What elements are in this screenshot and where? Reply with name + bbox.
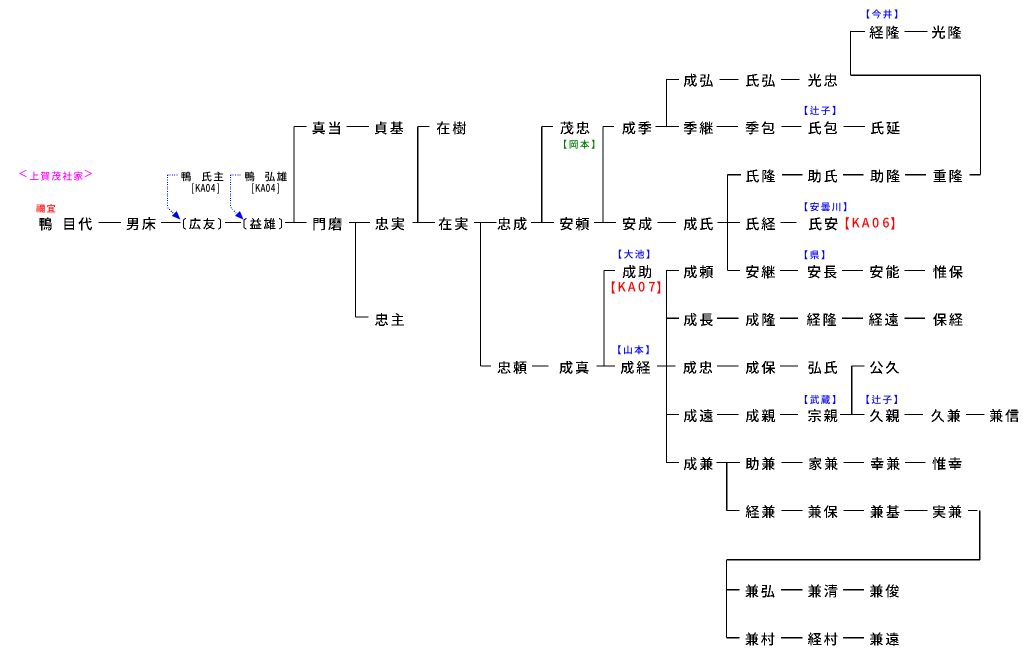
text 幸兼 <box>871 457 900 470</box>
wire dash <box>781 589 803 591</box>
wire dash <box>966 413 985 415</box>
wire stub <box>418 126 430 128</box>
text 【KA06】 <box>846 217 894 229</box>
wire route up <box>850 31 852 75</box>
text 季継 <box>684 121 713 134</box>
wire dash <box>781 126 801 128</box>
text 成親 <box>746 409 775 422</box>
text 門磨 <box>313 217 341 230</box>
text 成遠 <box>684 409 713 422</box>
text 季包 <box>745 121 774 134</box>
wire junction <box>596 365 615 367</box>
wire dash <box>904 30 927 32</box>
wire stub <box>603 126 614 128</box>
wire dash <box>717 365 739 367</box>
text 成頼 <box>684 265 713 278</box>
wire dash <box>780 270 798 272</box>
text 経遠 <box>869 313 898 326</box>
text 氏弘 <box>746 74 775 87</box>
text 経隆 <box>870 26 899 39</box>
wire junction <box>349 222 370 224</box>
text 経隆 <box>807 313 836 326</box>
wire dash <box>844 126 866 128</box>
wire dash <box>717 126 739 128</box>
wire dash <box>782 174 802 176</box>
wire dash <box>904 413 923 415</box>
wire dash <box>658 222 677 224</box>
wire dash <box>781 509 802 511</box>
text 【辻子】 <box>867 395 897 404</box>
wire v <box>602 127 604 223</box>
wire dash <box>843 509 863 511</box>
text [KA04] <box>252 183 279 193</box>
text 【県】 <box>805 250 824 259</box>
text 成助 <box>623 265 652 278</box>
text [KA04] <box>192 183 219 193</box>
wire stub r1 <box>851 30 865 32</box>
text 兼保 <box>808 505 837 518</box>
wire dash <box>225 222 241 224</box>
text 安継 <box>746 265 775 278</box>
text 鴨 <box>39 217 52 230</box>
text 【武蔵】 <box>805 395 835 404</box>
text 兼清 <box>808 584 837 597</box>
wire v <box>293 127 295 223</box>
wire stub <box>666 413 679 415</box>
text 男床 <box>126 217 155 230</box>
text 成兼 <box>684 457 713 470</box>
text 〔広友〕 <box>183 218 221 230</box>
annotation arrow <box>230 175 240 214</box>
wire dash <box>780 365 798 367</box>
text 茂忠 <box>560 121 589 134</box>
wire junction <box>840 413 865 415</box>
wire dash <box>717 413 739 415</box>
text 【大池】 <box>619 250 649 259</box>
wire dash <box>843 637 864 639</box>
wire v <box>479 223 481 367</box>
text 鴨 <box>182 171 191 181</box>
wire route top <box>851 74 981 76</box>
wire dash <box>842 270 863 272</box>
text 経村 <box>808 632 837 645</box>
wire v bracket2 <box>725 560 727 638</box>
text 久兼 <box>931 409 960 422</box>
text 貞基 <box>375 121 404 134</box>
text 氏隆 <box>746 169 775 182</box>
text 惟保 <box>933 265 963 278</box>
wire dash <box>905 317 925 319</box>
text 兼遠 <box>870 632 899 645</box>
wire dash <box>717 317 739 319</box>
text 〔益雄〕 <box>244 218 282 230</box>
text 目代 <box>64 217 92 230</box>
text 安頼 <box>560 217 589 230</box>
wire stub <box>852 365 865 367</box>
text 成季 <box>622 121 651 134</box>
text 氏経 <box>746 217 775 230</box>
text 兼基 <box>870 505 899 518</box>
wire stub corner <box>968 509 978 511</box>
wire dash <box>843 461 863 463</box>
text 助兼 <box>746 457 775 470</box>
wire dash <box>842 317 863 319</box>
wire stub <box>480 365 490 367</box>
wire junction <box>531 222 554 224</box>
text 【安曇川】 <box>805 202 846 211</box>
text 鴨 <box>245 171 254 181</box>
wire stub <box>542 126 553 128</box>
wire dash <box>719 78 738 80</box>
wire stub <box>604 270 615 272</box>
wire dash <box>781 78 800 80</box>
text 成経 <box>621 361 650 374</box>
text 成長 <box>684 313 713 326</box>
wire junction <box>413 222 436 224</box>
wire junction <box>594 222 616 224</box>
wire dash <box>781 222 797 224</box>
text 【KA07】 <box>612 281 660 293</box>
text 忠頼 <box>497 361 526 374</box>
wire dash <box>905 461 925 463</box>
text 経兼 <box>746 505 775 518</box>
wire stub <box>356 316 369 318</box>
wire v bracket <box>665 271 667 463</box>
text 成忠 <box>683 361 712 374</box>
text 【辻子】 <box>805 106 835 115</box>
text 兼弘 <box>745 584 774 597</box>
text 弘雄 <box>265 171 287 181</box>
text 成弘 <box>684 74 713 87</box>
wire junction <box>655 126 679 128</box>
wire stub <box>726 637 739 639</box>
text 公久 <box>870 361 899 374</box>
wire v <box>355 223 357 317</box>
wire v <box>851 366 853 414</box>
text 成隆 <box>746 313 775 326</box>
text 重隆 <box>933 169 962 182</box>
text 成真 <box>559 361 588 374</box>
wire stub <box>727 509 740 511</box>
wire v <box>603 271 605 367</box>
text 氏主 <box>202 171 223 181</box>
text 在実 <box>439 217 468 230</box>
wire v <box>727 175 729 271</box>
wire route down2 <box>979 510 981 559</box>
text 【今井】 <box>867 9 897 18</box>
text 惟幸 <box>932 457 961 470</box>
text 在樹 <box>437 121 466 134</box>
wire v <box>726 462 728 510</box>
text 成氏 <box>684 217 713 230</box>
text 安成 <box>623 217 652 230</box>
wire stub corner <box>970 174 981 176</box>
wire junction <box>474 222 497 224</box>
wire junction <box>716 461 740 463</box>
text 家兼 <box>809 457 838 470</box>
text 氏安 <box>809 217 838 230</box>
wire stub <box>666 461 679 463</box>
wire stub <box>294 126 306 128</box>
wire dash <box>780 413 798 415</box>
text 安能 <box>870 265 899 278</box>
text 助氏 <box>808 169 837 182</box>
wire stub <box>726 589 739 591</box>
text 兼信 <box>990 409 1019 422</box>
wire v <box>665 79 667 127</box>
wire v <box>417 127 419 223</box>
wire junction <box>657 365 676 367</box>
text 弘氏 <box>808 361 837 374</box>
annotation arrow <box>167 175 177 214</box>
text 助隆 <box>871 169 900 182</box>
text 忠成 <box>497 217 526 230</box>
wire junction <box>285 222 306 224</box>
wire dash <box>905 509 928 511</box>
wire junction <box>718 222 741 224</box>
wire dash <box>843 174 863 176</box>
text 忠実 <box>375 217 404 230</box>
text ＞ <box>85 170 93 178</box>
wire dash <box>781 461 802 463</box>
wire v <box>541 127 543 223</box>
wire dash <box>98 222 121 224</box>
text 禰宜 <box>36 204 55 213</box>
wire dash <box>781 637 803 639</box>
text 氏包 <box>808 121 837 134</box>
text 上賀茂社家 <box>30 172 83 181</box>
wire stub <box>666 317 679 319</box>
wire dash <box>347 126 370 128</box>
wire stub <box>728 270 740 272</box>
wire route down <box>980 75 982 175</box>
text 兼村 <box>745 632 774 645</box>
wire dash <box>532 365 549 367</box>
text 光隆 <box>932 26 961 39</box>
wire dash <box>905 174 926 176</box>
wire dash <box>161 222 181 224</box>
wire dash <box>843 589 864 591</box>
text ＜ <box>19 170 27 178</box>
text 久親 <box>870 409 899 422</box>
text 氏延 <box>871 121 900 134</box>
text 真当 <box>312 121 340 134</box>
text 保経 <box>933 313 962 326</box>
text 実兼 <box>933 505 962 518</box>
text 光忠 <box>808 74 837 87</box>
wire stub <box>666 270 679 272</box>
wire dash <box>780 317 798 319</box>
text 宗親 <box>808 409 837 422</box>
wire stub r2 <box>666 78 679 80</box>
text 安長 <box>808 265 837 278</box>
wire dash <box>905 270 925 272</box>
text 忠主 <box>375 313 404 326</box>
wire stub <box>728 174 741 176</box>
text 【山本】 <box>618 345 648 354</box>
text 兼俊 <box>870 584 899 597</box>
text 成保 <box>746 361 775 374</box>
text 【岡本】 <box>564 140 594 149</box>
wire route bottom <box>726 559 979 561</box>
